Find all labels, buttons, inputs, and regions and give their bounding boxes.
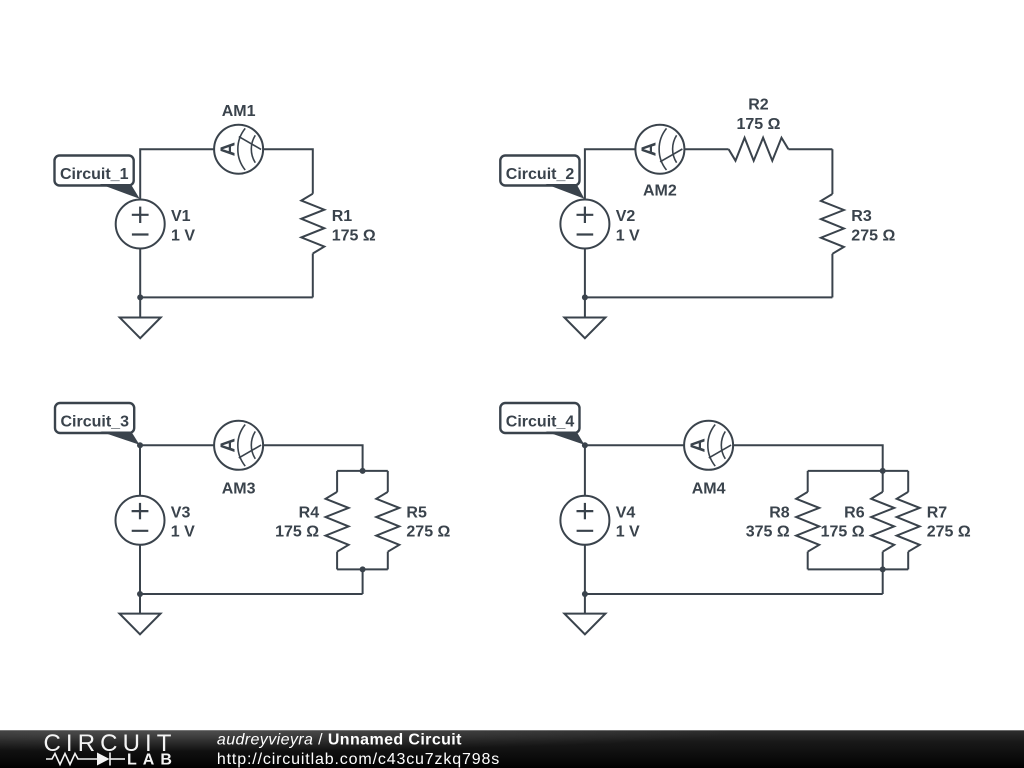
svg-text:AM3: AM3 — [222, 481, 256, 498]
svg-text:1 V: 1 V — [616, 524, 640, 541]
svg-text:A: A — [217, 142, 239, 156]
svg-text:375 Ω: 375 Ω — [746, 524, 790, 541]
svg-text:275 Ω: 275 Ω — [406, 524, 450, 541]
svg-text:A: A — [217, 438, 239, 452]
svg-text:Circuit_3: Circuit_3 — [61, 414, 130, 431]
svg-text:A: A — [687, 438, 709, 452]
svg-text:Circuit_1: Circuit_1 — [60, 166, 129, 183]
svg-text:175 Ω: 175 Ω — [332, 227, 376, 244]
svg-text:A: A — [639, 142, 661, 156]
svg-text:275 Ω: 275 Ω — [927, 524, 971, 541]
svg-text:audreyvieyra / Unnamed Circuit: audreyvieyra / Unnamed Circuit — [217, 731, 462, 748]
svg-text:R2: R2 — [748, 97, 769, 114]
svg-text:R4: R4 — [299, 504, 320, 521]
svg-text:175 Ω: 175 Ω — [736, 116, 780, 133]
svg-text:275 Ω: 275 Ω — [851, 227, 895, 244]
svg-text:LAB: LAB — [127, 751, 178, 768]
svg-text:R6: R6 — [844, 504, 865, 521]
svg-text:R8: R8 — [769, 504, 790, 521]
svg-text:R7: R7 — [927, 504, 948, 521]
svg-text:AM2: AM2 — [643, 183, 677, 200]
svg-text:http://circuitlab.com/c43cu7zk: http://circuitlab.com/c43cu7zkq798s — [217, 751, 500, 768]
svg-text:Circuit_4: Circuit_4 — [506, 414, 575, 431]
svg-text:175 Ω: 175 Ω — [821, 524, 865, 541]
svg-text:1 V: 1 V — [171, 524, 195, 541]
svg-text:R1: R1 — [332, 208, 353, 225]
svg-text:V1: V1 — [171, 208, 191, 225]
svg-text:V2: V2 — [616, 208, 636, 225]
svg-text:R5: R5 — [406, 504, 427, 521]
svg-text:175 Ω: 175 Ω — [275, 524, 319, 541]
svg-text:AM1: AM1 — [222, 103, 256, 120]
svg-text:V4: V4 — [616, 504, 636, 521]
svg-text:V3: V3 — [171, 504, 191, 521]
svg-text:R3: R3 — [851, 208, 872, 225]
svg-text:AM4: AM4 — [692, 481, 726, 498]
svg-text:1 V: 1 V — [616, 227, 640, 244]
svg-text:Circuit_2: Circuit_2 — [506, 166, 575, 183]
svg-text:1 V: 1 V — [171, 227, 195, 244]
